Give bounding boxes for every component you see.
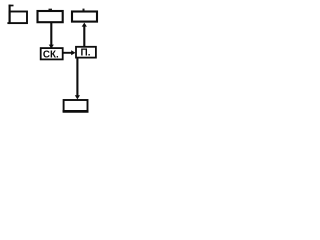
tick above block B: [49, 8, 53, 10]
bottom box thick lower edge: [63, 110, 89, 113]
arrowhead into C box (up): [82, 23, 87, 27]
wire CK to P (horizontal): [63, 52, 73, 54]
wire P to C (vertical up): [83, 26, 85, 47]
box P: [76, 47, 96, 58]
wire P to bottom box (vertical down): [76, 58, 78, 96]
arrowhead into P box (right): [71, 50, 75, 55]
block A stem (vertical line with top serif, left block): [9, 5, 14, 24]
block B (top middle rectangle): [38, 11, 63, 22]
svg-text:СК.: СК.: [43, 49, 59, 60]
svg-text:П.: П.: [81, 48, 91, 59]
wire B to CK (vertical): [50, 22, 52, 47]
arrowhead into CK box (down): [49, 45, 54, 49]
bottom box: [64, 100, 88, 111]
block A body (rectangle of left block): [7, 12, 27, 24]
box CK: [41, 48, 63, 59]
tick above block C: [83, 9, 85, 11]
arrowhead into bottom box (down): [75, 95, 80, 99]
block C (top right rectangle): [72, 12, 97, 22]
